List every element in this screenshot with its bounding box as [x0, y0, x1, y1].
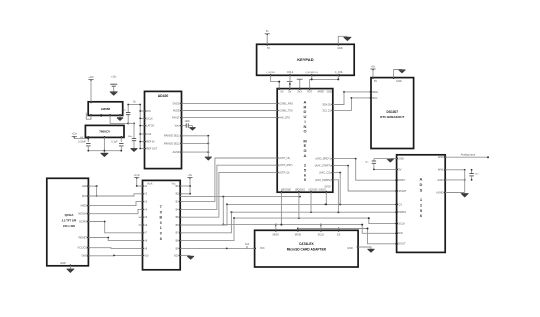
- wire rail B vertical: [133, 123, 135, 138]
- ground at AD420 Vout cap: [189, 127, 195, 130]
- svg-text:DIN: DIN: [398, 232, 403, 235]
- wire net SDA: [333, 92, 371, 105]
- wire stubs rail C to AD420 left pins: [140, 110, 144, 112]
- svg-text:CLR: CLR: [146, 133, 151, 136]
- wire rail C vertical to AD420 pins: [139, 105, 141, 149]
- svg-text:LATCH: LATCH: [146, 125, 154, 128]
- ground at 7805: [101, 153, 109, 156]
- svg-text:AREF: AREF: [318, 91, 325, 94]
- svg-text:5V: 5V: [288, 91, 291, 94]
- mcu board U1 ARDUINO MEGA 2560: [277, 89, 333, 193]
- sd card module CATALEX MicroSD CARD ADAPTER: [255, 230, 359, 267]
- svg-text:RST: RST: [307, 91, 312, 94]
- svg-text:(MISO)50: (MISO)50: [281, 189, 292, 191]
- wire net SCK qvga-ls: [88, 194, 142, 196]
- wire mega OTP_UI to LS B3: [180, 158, 277, 202]
- wire keypad pin4 drop: [337, 75, 339, 79]
- svg-text:5v: 5v: [266, 30, 269, 33]
- svg-text:MISO: MISO: [273, 234, 279, 237]
- wire keypad 5V pin to flag: [266, 35, 268, 45]
- svg-text:AGND: AGND: [172, 151, 179, 154]
- capacitor C1 0.33uF: [86, 143, 90, 145]
- svg-text:3v3: 3v3: [245, 243, 250, 246]
- svg-text:AGND: AGND: [436, 191, 443, 194]
- power flag stub at mega 3V3 top pin: [299, 79, 301, 88]
- ground at keypad: [344, 37, 352, 40]
- svg-text:GND: GND: [327, 91, 333, 94]
- wire mega pin52 drop to row 212: [310, 192, 312, 212]
- wire LS B9 to SD 3V3: [180, 247, 254, 249]
- svg-text:RANGE SEL2: RANGE SEL2: [164, 142, 180, 145]
- capacitor C5 10u at ADS supply: [373, 159, 375, 161]
- wire SD MOSI stub: [297, 229, 299, 231]
- wire row 228 corner to ADS DOUT: [368, 229, 397, 244]
- svg-text:VCC/CS: VCC/CS: [78, 247, 88, 250]
- wire mega AXX_PWDN to row 212: [333, 180, 339, 212]
- svg-text:AIN0: AIN0: [438, 156, 444, 159]
- svg-text:5V: 5V: [398, 168, 401, 171]
- svg-text:SCLK: SCLK: [398, 223, 405, 226]
- svg-text:5V: 5V: [281, 91, 284, 94]
- ground at AD420 AGND: [205, 157, 212, 160]
- wire LS B2 stub: [180, 193, 190, 195]
- svg-text:(SCK)52: (SCK)52: [309, 189, 319, 191]
- capacitor C4 100n on rail B: [132, 137, 136, 139]
- svg-text:5V: 5V: [374, 80, 377, 83]
- wire net RESET qvga-ls: [88, 238, 142, 241]
- wire rail A top tie: [128, 104, 140, 106]
- wire SD CS stub: [338, 229, 340, 231]
- wire AD420 AVDD to mega TX0: [182, 110, 278, 112]
- svg-text:COM1_TX0: COM1_TX0: [279, 110, 293, 113]
- svg-text:+5v: +5v: [188, 174, 193, 177]
- wire mega pin51 drop to row 218: [298, 192, 300, 218]
- svg-text:+12v: +12v: [111, 75, 117, 78]
- wire SD SCLK stub: [320, 225, 322, 231]
- svg-text:100n: 100n: [128, 136, 133, 138]
- wire bus H row 218: [234, 217, 369, 219]
- svg-text:DS1307: DS1307: [387, 110, 399, 114]
- wire QVGA LED tie: [88, 185, 96, 187]
- svg-text:(MOSI)51: (MOSI)51: [295, 189, 306, 191]
- svg-text:PWDN: PWDN: [398, 211, 406, 214]
- rtc module DS1307 RTC BREAKOUT: [371, 78, 414, 149]
- wire net MOSI qvga-ls: [88, 209, 142, 213]
- keypad module KEYPAD: [257, 44, 355, 75]
- svg-text:COL2: COL2: [287, 71, 294, 74]
- svg-text:MicroSD CARD ADAPTER: MicroSD CARD ADAPTER: [287, 248, 327, 252]
- wire SD MISO stub: [275, 225, 277, 231]
- svg-text:(SS)53: (SS)53: [319, 189, 327, 191]
- svg-text:LED: LED: [82, 185, 87, 188]
- wire 7805 pin1 stub: [87, 137, 89, 142]
- svg-text:RANGE SEL1: RANGE SEL1: [164, 135, 180, 138]
- svg-text:A: A: [304, 153, 307, 158]
- svg-text:10n: 10n: [475, 173, 479, 175]
- ground at level shifter: [187, 256, 194, 259]
- wire flag to LS right pins: [189, 178, 191, 194]
- svg-text:2.2 TFT SPI: 2.2 TFT SPI: [62, 219, 77, 223]
- wire QVGA gnd stub: [69, 266, 71, 269]
- svg-text:1: 1: [160, 226, 162, 230]
- svg-text:SDA: SDA: [373, 91, 378, 94]
- svg-text:SCL: SCL: [373, 97, 378, 100]
- svg-text:3V3: 3V3: [260, 247, 265, 250]
- svg-text:+3,3v: +3,3v: [134, 174, 141, 177]
- ground at SD adapter: [367, 249, 374, 252]
- svg-text:DRDY: DRDY: [398, 179, 405, 182]
- svg-text:AVDD: AVDD: [173, 109, 180, 112]
- wire LS A5 stub: [139, 216, 143, 218]
- wire AD420 range select pins to ground bus: [182, 135, 209, 137]
- svg-text:DVDD: DVDD: [173, 102, 180, 105]
- svg-text:FAULT: FAULT: [172, 117, 180, 120]
- ground at rail B: [130, 148, 137, 151]
- svg-text:5V/3V: 5V/3V: [325, 187, 332, 189]
- wire rail to ground: [103, 151, 105, 153]
- wire keypad GND pin: [338, 36, 347, 44]
- wire net MISO qvga-ls: [88, 202, 142, 206]
- capacitor C6 10n analog: [471, 170, 473, 174]
- ground at ADS analog: [461, 194, 469, 197]
- svg-text:(AXX_PWDN): (AXX_PWDN): [315, 179, 331, 182]
- svg-text:KEYPAD: KEYPAD: [297, 57, 313, 62]
- wire ADS AIN1 to gnd rail: [445, 169, 465, 171]
- wire 5V rail vertical A: [127, 105, 129, 113]
- wire row 218 corner to ADS SCLK: [369, 218, 397, 224]
- wire ADS GND pin to ground: [390, 158, 396, 160]
- wire ADS AGND to gnd rail: [445, 192, 465, 194]
- svg-text:QVGA: QVGA: [65, 213, 75, 217]
- svg-text:10u: 10u: [122, 110, 126, 112]
- wire mega AXD_DRDY to ADS: [333, 159, 397, 181]
- display module QVGA 2.2 TFT SPI: [47, 178, 89, 265]
- svg-text:SCK: SCK: [82, 195, 87, 198]
- wire net Analog input: [445, 156, 487, 158]
- svg-text:O: O: [303, 129, 306, 134]
- wire mega pin53 drop to row 204: [325, 192, 327, 204]
- adc U6 ADS1256: [397, 155, 446, 253]
- svg-text:AIN1: AIN1: [438, 169, 444, 172]
- wire cap ground rail: [88, 150, 121, 152]
- wire ADS AINC to gnd rail: [445, 179, 465, 181]
- wire keypad row/col bus: [310, 79, 339, 88]
- svg-text:0: 0: [160, 232, 162, 236]
- wire ADS 5V pin to cap: [374, 168, 397, 170]
- ground at DS1307: [398, 70, 405, 73]
- svg-text:+12v: +12v: [88, 76, 94, 79]
- svg-text:3V3: 3V3: [297, 91, 302, 94]
- svg-text:START: START: [398, 190, 406, 193]
- svg-text:(OTP_RST): (OTP_RST): [279, 164, 292, 167]
- dac U2 AD420: [145, 91, 182, 168]
- svg-text:CATALEX: CATALEX: [299, 242, 314, 246]
- svg-text:REF OUT: REF OUT: [146, 147, 157, 150]
- ground at ADS top: [387, 159, 394, 162]
- svg-text:CS: CS: [398, 203, 402, 206]
- wire 7805 gnd pin down: [103, 137, 105, 150]
- svg-text:A: A: [420, 177, 423, 182]
- wire LS B1 stub: [180, 185, 190, 187]
- wire mega OTP_RST to LS B4: [180, 165, 277, 209]
- svg-text:LM358: LM358: [101, 107, 111, 111]
- svg-text:MISO: MISO: [81, 205, 87, 208]
- wire net SCL: [333, 98, 371, 111]
- wire net CS qvga-ls: [88, 247, 142, 250]
- wire AD420 FAULT to mega HW: [182, 117, 278, 119]
- wire flag to DS1307: [372, 70, 374, 78]
- wire AD420 DVDD to mega RX0: [182, 102, 278, 104]
- svg-text:VccA: VccA: [147, 182, 153, 185]
- wire mega pin50 drop to row 224: [280, 192, 282, 224]
- svg-text:RESET: RESET: [79, 236, 88, 239]
- svg-text:S: S: [420, 187, 423, 192]
- svg-text:GND: GND: [337, 48, 342, 50]
- svg-text:0.33uF: 0.33uF: [78, 141, 86, 144]
- wire 7805 input: [74, 137, 88, 138]
- svg-text:3_ROW/COL: 3_ROW/COL: [305, 72, 319, 74]
- wire mega OTP_D to LS B5: [180, 172, 277, 217]
- wire row 224 corner to ADS DIN: [362, 225, 396, 234]
- svg-text:GND: GND: [398, 158, 404, 161]
- wire bus H row 212: [231, 211, 396, 213]
- svg-text:SCL 21: SCL 21: [323, 109, 332, 112]
- svg-text:AINC: AINC: [437, 179, 443, 182]
- svg-text:D: D: [420, 182, 423, 187]
- wire LS B10 to ground: [180, 254, 190, 256]
- wire keypad pin3 drop: [311, 75, 313, 79]
- svg-text:5V: 5V: [267, 48, 270, 50]
- wire LM358 pin4 to ground: [119, 115, 121, 117]
- svg-text:10u: 10u: [365, 162, 369, 164]
- svg-text:COM1_RX0: COM1_RX0: [279, 102, 293, 105]
- svg-text:+12v: +12v: [72, 133, 78, 136]
- svg-text:HW_CFG: HW_CFG: [279, 117, 290, 120]
- wire net GND qvga-ls: [88, 254, 142, 256]
- wire net DC qvga-ls: [88, 222, 142, 233]
- svg-text:MOSI/A: MOSI/A: [78, 213, 87, 216]
- svg-text:B10: B10: [174, 255, 179, 257]
- wire LS B8 up to row 218: [180, 218, 234, 241]
- wire bus H row 196: [180, 196, 300, 198]
- wire mega top pin2 stub: [289, 82, 291, 89]
- regulator U4 7805CV: [85, 125, 124, 137]
- svg-text:SCLK: SCLK: [146, 117, 153, 120]
- wire bus H row 228 CS: [298, 228, 368, 230]
- svg-text:1_ROW1: 1_ROW1: [266, 72, 276, 74]
- wire vertical bus at 340: [339, 173, 341, 205]
- wire bus V 223 to row 224: [222, 197, 224, 225]
- svg-text:5v: 5v: [133, 101, 136, 104]
- wire cap to ground: [188, 125, 192, 127]
- svg-text:7805CV: 7805CV: [99, 130, 110, 134]
- wire keypad pin2 down to mega: [289, 75, 291, 88]
- wire LS B7 up to row 212: [180, 212, 231, 233]
- wire mega AXC_CS stub to V bus: [333, 172, 340, 174]
- svg-text:DOUT: DOUT: [398, 243, 406, 246]
- svg-text:GND: GND: [347, 247, 353, 250]
- wire ground bus vertical: [207, 136, 209, 157]
- svg-text:100n: 100n: [185, 120, 191, 123]
- wire rail B tie: [128, 122, 134, 124]
- wire DS1307 GND: [394, 70, 402, 78]
- svg-text:+5v: +5v: [371, 65, 376, 68]
- svg-text:GND: GND: [81, 255, 87, 258]
- wire LS B6 up to row 204: [180, 204, 227, 225]
- wire +12V flag to LM358: [90, 80, 92, 102]
- svg-text:VIN: VIN: [80, 137, 84, 139]
- wire SD GND to ground: [358, 247, 371, 249]
- svg-text:240 x 320: 240 x 320: [63, 224, 75, 228]
- wire mega AXX_START to ADS: [333, 166, 397, 191]
- wire keypad pin1 to mega 5V pin: [271, 75, 280, 88]
- capacitor C7 100n at AD420 Vout: [182, 125, 187, 127]
- wire flag to LS pin A1: [137, 178, 143, 186]
- wire ADS GND to cap: [374, 158, 390, 160]
- ground at battery: [110, 92, 118, 95]
- capacitor C3 10uF on rail A: [126, 111, 130, 113]
- wire LM358 pin1 hook: [86, 113, 91, 119]
- svg-text:GND: GND: [60, 262, 66, 265]
- ground at LM358: [117, 118, 123, 121]
- wire bus H row 204: [227, 203, 397, 205]
- svg-text:(OTP_UI): (OTP_UI): [279, 157, 290, 160]
- svg-text:RTC BREAKOUT: RTC BREAKOUT: [380, 115, 404, 119]
- svg-text:(AXC_CS): (AXC_CS): [319, 172, 331, 175]
- svg-text:(OTP_D): (OTP_D): [279, 171, 289, 174]
- svg-text:0.1uF: 0.1uF: [111, 141, 118, 144]
- wire LM358 pin3 to rail: [110, 115, 128, 123]
- svg-text:(AXX_START): (AXX_START): [315, 165, 331, 168]
- svg-text:B: B: [159, 216, 162, 220]
- ground at QVGA: [67, 269, 75, 272]
- svg-text:SDA 20: SDA 20: [322, 104, 331, 107]
- regulator U3 LM358: [88, 102, 123, 116]
- wire bus H row 224 MISO: [223, 224, 362, 226]
- svg-text:0: 0: [160, 221, 162, 225]
- svg-text:Vout: Vout: [175, 125, 180, 128]
- svg-text:A10: A10: [144, 254, 149, 257]
- svg-text:GND: GND: [396, 80, 402, 83]
- svg-text:AD420: AD420: [158, 94, 169, 98]
- svg-text:4_COL: 4_COL: [335, 71, 344, 74]
- svg-text:SCLK: SCLK: [318, 234, 325, 237]
- wire LS A6 stub: [139, 224, 143, 226]
- svg-text:REF IN: REF IN: [146, 141, 154, 144]
- wire analog gnd rail: [464, 170, 466, 193]
- svg-text:MOSI: MOSI: [295, 234, 302, 237]
- level shifter U5 TXB0108: [143, 180, 181, 269]
- svg-text:Analog input: Analog input: [461, 153, 476, 157]
- svg-text:CS: CS: [337, 234, 341, 237]
- svg-text:DC/RS: DC/RS: [79, 220, 87, 223]
- svg-text:8: 8: [160, 237, 162, 241]
- svg-text:(AXD_DRDY): (AXD_DRDY): [316, 158, 331, 161]
- svg-text:DIN: DIN: [146, 110, 151, 113]
- capacitor C2 0.1uF: [120, 137, 122, 142]
